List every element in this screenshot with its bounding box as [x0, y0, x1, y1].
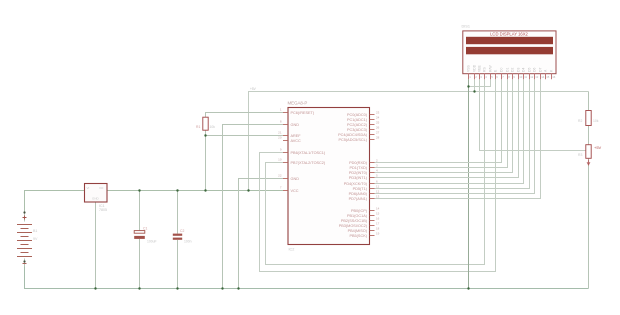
svg-text:R3: R3 — [578, 153, 582, 157]
svg-text:27: 27 — [376, 131, 380, 135]
wire LCD VSS down to ground rail — [468, 79, 470, 288]
capacitor C1 100uF — [134, 227, 156, 244]
capacitor C2 100n — [173, 229, 192, 244]
svg-text:15: 15 — [376, 212, 380, 216]
LCD character row 1 — [466, 37, 553, 44]
svg-text:28: 28 — [376, 136, 380, 140]
svg-text:16: 16 — [376, 217, 380, 221]
svg-text:19: 19 — [376, 232, 380, 236]
svg-text:22: 22 — [278, 174, 282, 178]
svg-text:PC6(/RESET): PC6(/RESET) — [291, 111, 315, 115]
svg-text:PB4(MISO): PB4(MISO) — [348, 229, 368, 233]
svg-text:RS: RS — [483, 67, 487, 72]
wire C2 branch — [177, 191, 179, 289]
svg-text:VDD: VDD — [473, 64, 477, 72]
svg-text:7805: 7805 — [99, 208, 107, 212]
wire right resistor chain — [588, 92, 590, 289]
wire AREF to R1 bottom node — [206, 135, 284, 137]
svg-text:15: 15 — [546, 75, 550, 79]
svg-text:10k: 10k — [593, 119, 599, 123]
svg-text:PB1(OC1A): PB1(OC1A) — [347, 214, 368, 218]
resistor R2 contrast upper 10k — [578, 111, 599, 126]
svg-text:PC4(ADC4/SDA): PC4(ADC4/SDA) — [338, 133, 368, 137]
svg-text:D3: D3 — [517, 68, 521, 72]
svg-text:GND: GND — [92, 197, 100, 201]
svg-text:DIS1: DIS1 — [462, 25, 470, 29]
wire LCD R/W tied to VSS — [469, 79, 491, 86]
svg-text:PD7(AIN1): PD7(AIN1) — [349, 197, 368, 201]
svg-text:+5V: +5V — [594, 145, 602, 150]
svg-text:10k: 10k — [210, 125, 216, 129]
svg-text:D6: D6 — [533, 68, 537, 72]
battery B1 9V — [17, 211, 38, 266]
wire LCD VEE contrast to resistor divider — [480, 79, 587, 150]
svg-text:LCD DISPLAY 16X2: LCD DISPLAY 16X2 — [490, 32, 528, 37]
svg-text:PC2(ADC2): PC2(ADC2) — [347, 123, 368, 127]
LCD display DIS1 16x2 — [462, 25, 557, 74]
svg-text:PB5(SCK): PB5(SCK) — [349, 234, 367, 238]
svg-text:D4: D4 — [522, 68, 526, 72]
wire MCU GND pin 8 to ground — [223, 125, 284, 289]
svg-text:24: 24 — [376, 116, 380, 120]
svg-text:10: 10 — [519, 75, 523, 79]
wire staircase MCU PD0-PD7 to LCD D0-D7 — [375, 79, 541, 198]
LCD pin names — [467, 64, 554, 72]
svg-text:PD1(TXD): PD1(TXD) — [349, 166, 367, 170]
wire MCU GND pin 22 to ground — [239, 179, 284, 289]
svg-text:VO: VO — [99, 186, 104, 190]
svg-text:GND: GND — [291, 177, 300, 181]
svg-text:100n: 100n — [184, 240, 192, 244]
svg-text:PD6(AIN0): PD6(AIN0) — [349, 192, 368, 196]
svg-text:12: 12 — [376, 190, 380, 194]
svg-text:13: 13 — [376, 195, 380, 199]
svg-text:100uF: 100uF — [147, 240, 157, 244]
svg-text:D0: D0 — [500, 68, 504, 72]
svg-text:B1: B1 — [33, 229, 37, 233]
MCU left pin names — [291, 111, 326, 193]
regulator IC1 7805 — [85, 184, 108, 213]
MCU right pin stubs — [370, 115, 375, 236]
svg-text:13: 13 — [535, 75, 539, 79]
svg-text:D7: D7 — [539, 68, 543, 72]
svg-text:20: 20 — [278, 136, 282, 140]
svg-text:IC2: IC2 — [289, 248, 295, 252]
microcontroller IC2 MEGA8-P — [288, 101, 370, 252]
svg-text:AREF: AREF — [291, 134, 302, 138]
LCD pin stubs — [469, 74, 552, 80]
svg-text:C1: C1 — [143, 227, 147, 231]
svg-text:14: 14 — [541, 75, 545, 79]
svg-text:R/W: R/W — [489, 65, 493, 72]
wire C1 branch — [139, 191, 141, 289]
svg-text:10: 10 — [278, 158, 282, 162]
LCD pin numbers — [469, 75, 556, 79]
svg-text:9V: 9V — [33, 237, 38, 241]
svg-text:PC0(ADC0): PC0(ADC0) — [347, 113, 368, 117]
svg-text:D2: D2 — [511, 68, 515, 72]
svg-text:26: 26 — [376, 126, 380, 130]
svg-text:25: 25 — [376, 121, 380, 125]
wire regulator ground pin down — [95, 202, 97, 289]
svg-text:PD0(RXD): PD0(RXD) — [349, 161, 368, 165]
svg-text:PB6(XTAL1/TOSC1): PB6(XTAL1/TOSC1) — [291, 151, 326, 155]
svg-text:MEGA8-P: MEGA8-P — [288, 101, 308, 106]
svg-text:PC3(ADC3): PC3(ADC3) — [347, 128, 368, 132]
svg-text:PD4(XCK/T0): PD4(XCK/T0) — [344, 182, 368, 186]
wire reset pull-up through R1 — [206, 113, 284, 191]
svg-text:PB3(MOSI/OC2): PB3(MOSI/OC2) — [339, 224, 368, 228]
svg-text:18: 18 — [376, 227, 380, 231]
MCU left pin numbers — [278, 108, 282, 190]
wire VCC rail from battery through regulator to MCU VCC — [25, 191, 284, 213]
resistor R3 contrast lower — [578, 145, 602, 165]
svg-text:PB2(SS/OC1B): PB2(SS/OC1B) — [341, 219, 368, 223]
svg-text:14: 14 — [376, 207, 380, 211]
wire LCD VDD to +5V line — [474, 79, 476, 91]
svg-text:VCC: VCC — [291, 189, 299, 193]
svg-text:21: 21 — [278, 131, 282, 135]
MCU right pin numbers — [376, 111, 380, 236]
MCU left pin stubs — [283, 113, 288, 191]
svg-text:VEE: VEE — [478, 64, 482, 72]
wire PB6 wrap-around to LCD E — [260, 79, 496, 271]
svg-text:R2: R2 — [578, 119, 582, 123]
wire ground rail — [25, 267, 589, 289]
svg-text:PD3(INT1): PD3(INT1) — [349, 176, 368, 180]
svg-text:D5: D5 — [528, 68, 532, 72]
svg-text:11: 11 — [524, 75, 527, 79]
svg-text:PD5(T1): PD5(T1) — [353, 187, 368, 191]
svg-text:12: 12 — [530, 75, 534, 79]
svg-text:R1: R1 — [196, 125, 200, 129]
svg-text:PB0(ICP): PB0(ICP) — [351, 209, 368, 213]
svg-text:AVCC: AVCC — [291, 139, 302, 143]
svg-text:VSS: VSS — [467, 64, 471, 72]
svg-text:PC1(ADC1): PC1(ADC1) — [347, 118, 368, 122]
wire +5V top line — [249, 92, 589, 191]
svg-text:PC5(ADC5/SCL): PC5(ADC5/SCL) — [339, 138, 368, 142]
svg-text:+5V: +5V — [250, 87, 257, 91]
svg-text:D1: D1 — [506, 68, 510, 72]
svg-text:C2: C2 — [180, 229, 184, 233]
svg-text:16: 16 — [552, 75, 556, 79]
svg-text:PD2(INT0): PD2(INT0) — [349, 171, 368, 175]
LCD character row 2 — [466, 47, 553, 54]
svg-text:17: 17 — [376, 222, 380, 226]
svg-text:VI: VI — [87, 186, 90, 190]
wire PB7 wrap-around to LCD RS — [266, 79, 485, 264]
svg-text:PB7(XTAL2/TOSC2): PB7(XTAL2/TOSC2) — [291, 161, 326, 165]
svg-text:23: 23 — [376, 111, 380, 115]
resistor R1 reset pull-up 10k — [196, 117, 215, 130]
svg-text:11: 11 — [376, 185, 379, 189]
svg-text:GND: GND — [291, 123, 300, 127]
MCU right pin names — [338, 113, 368, 238]
